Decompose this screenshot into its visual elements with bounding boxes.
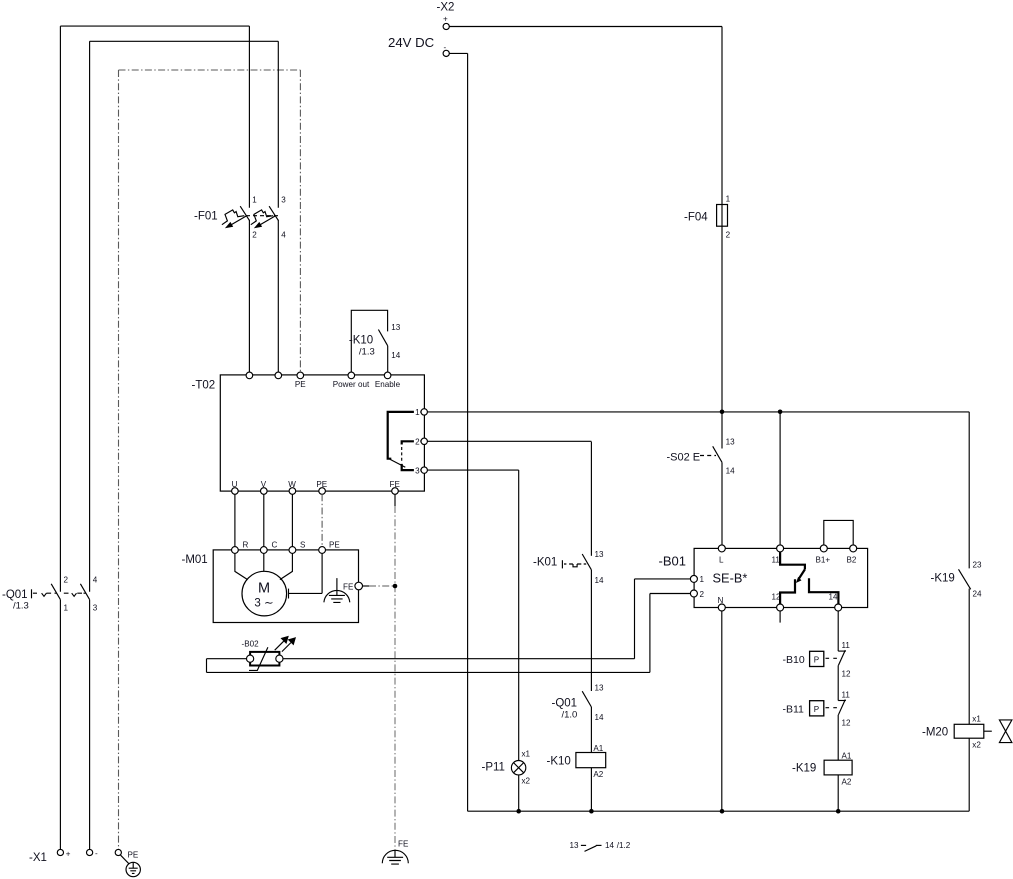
svg-text:-F01: -F01: [194, 211, 218, 223]
svg-text:13: 13: [570, 841, 580, 850]
T02 terminal V: [261, 488, 268, 495]
T02 output labels: [414, 407, 420, 416]
enclosure boundary dash-dot horizontal: [119, 69, 301, 71]
B01 terminal 14: [835, 604, 842, 611]
svg-text:1: 1: [726, 195, 731, 204]
PE inner wire: [289, 553, 323, 593]
terminal X1:-: [87, 849, 93, 855]
svg-text:FE: FE: [398, 840, 409, 849]
contact B10 pressure NC: [838, 650, 846, 652]
M01 box: [213, 550, 358, 623]
FE drop solid: [394, 494, 396, 506]
B02 body: [250, 652, 279, 666]
B01 terminal 12: [777, 604, 784, 611]
svg-text:+: +: [443, 15, 448, 24]
contact Q01 /1.0: [582, 691, 591, 707]
svg-text:B2: B2: [847, 556, 857, 565]
svg-text:x1: x1: [522, 750, 531, 759]
T02 terminal Enable: [384, 372, 391, 379]
svg-text:-B02: -B02: [242, 640, 260, 649]
lamp P11: [511, 761, 525, 775]
svg-text:13: 13: [391, 323, 401, 332]
enclosure boundary dash-dot left vertical: [118, 70, 120, 850]
svg-text:/1.2: /1.2: [617, 841, 631, 850]
fuse F04: [717, 205, 728, 227]
svg-text:x2: x2: [972, 741, 981, 750]
svg-text:x1: x1: [972, 715, 981, 724]
M01 terminal S: [289, 547, 296, 554]
Q01 actuator tick: [31, 589, 33, 598]
coil K19: [824, 760, 852, 775]
svg-text:24V DC: 24V DC: [388, 35, 435, 50]
wire B11 to K19 coil: [837, 715, 839, 760]
B01 terminal B2: [850, 545, 857, 552]
T02 internal dashes: [401, 447, 403, 463]
svg-text:FE: FE: [343, 583, 354, 592]
svg-text:U: U: [232, 480, 238, 489]
B02 bus left connector: [206, 659, 208, 673]
svg-text:N: N: [718, 596, 724, 605]
B02 terminal left: [247, 655, 254, 662]
svg-text:12: 12: [842, 718, 852, 727]
svg-text:14: 14: [595, 576, 605, 585]
B02 terminal right: [276, 655, 283, 662]
T02 terminal Power out: [348, 372, 355, 379]
svg-text:14: 14: [726, 467, 736, 476]
B01 internal changeover bold: [780, 552, 805, 570]
svg-text:-S02 E: -S02 E: [667, 452, 701, 464]
svg-text:2: 2: [726, 230, 731, 239]
svg-text:14: 14: [391, 351, 401, 360]
K10 contact branch above T02: [351, 310, 387, 372]
svg-text:11: 11: [842, 641, 851, 650]
svg-text:-X1: -X1: [29, 852, 47, 864]
contact S02 emergency: [713, 446, 722, 462]
M01 inner leads: [235, 553, 293, 579]
svg-text:14: 14: [595, 713, 605, 722]
wire 24V+ to bus: [449, 26, 722, 28]
Q01 trip notch 2: [72, 593, 77, 596]
svg-text:Power out: Power out: [333, 380, 370, 389]
wire output1 corner down: [968, 412, 970, 569]
B01 terminal N: [718, 604, 725, 611]
wire F04 to junction: [721, 226, 723, 448]
B02 thermistor diagonal: [249, 647, 268, 670]
svg-text:V: V: [261, 480, 267, 489]
0V bus vertical: [467, 53, 469, 811]
wire K19 contact to M20: [968, 589, 970, 725]
svg-text:13: 13: [595, 683, 605, 692]
svg-text:2: 2: [700, 590, 705, 599]
Q01 trip notch 1: [42, 593, 47, 596]
F01 wire pole2 upper: [277, 41, 279, 208]
wire L1 top: [60, 25, 249, 27]
T02 terminal W: [289, 488, 296, 495]
svg-text:-B11: -B11: [783, 703, 805, 715]
T02 internal blade: [390, 459, 405, 467]
terminal X1:PE: [115, 849, 121, 855]
wire 11 branch from output1: [778, 410, 783, 415]
svg-text:FE: FE: [390, 480, 401, 489]
wire from output2 down: [590, 442, 592, 556]
svg-text:-B10: -B10: [783, 654, 805, 666]
svg-text:M: M: [258, 580, 270, 596]
coil K10: [576, 753, 606, 768]
wire L2 top: [90, 40, 279, 42]
svg-text:-M01: -M01: [182, 554, 208, 566]
F01 wire pole1 upper: [248, 26, 250, 208]
svg-text:PE: PE: [128, 851, 139, 860]
valve symbol: [984, 730, 992, 732]
wire 24V+ bus down: [721, 27, 723, 205]
svg-text:P: P: [814, 705, 819, 714]
svg-text:11: 11: [842, 690, 851, 699]
wire K19 coil to rail: [837, 775, 839, 811]
M01 internal earth: [329, 578, 345, 602]
protective earth symbol: [126, 862, 140, 876]
junction FE: [393, 584, 398, 589]
svg-text:2: 2: [252, 231, 257, 240]
svg-text:24: 24: [973, 589, 983, 598]
wire 24V- to bus: [449, 52, 467, 54]
svg-text:4: 4: [93, 576, 98, 585]
svg-text:14: 14: [829, 592, 839, 601]
B02 bus bottom: [207, 594, 691, 673]
svg-text:-F04: -F04: [684, 212, 708, 224]
svg-text:-K19: -K19: [931, 573, 955, 585]
F01 wire pole1 lower: [248, 220, 250, 372]
contact K01: [582, 554, 591, 570]
T02 output terminal 2: [421, 438, 427, 444]
svg-text:-Q01: -Q01: [552, 698, 578, 710]
contact K19 23/24: [959, 569, 971, 589]
svg-text:-K01: -K01: [533, 557, 557, 569]
svg-text:PE: PE: [316, 480, 327, 489]
svg-text:PE: PE: [329, 541, 340, 550]
T02 terminal FE: [392, 488, 399, 495]
B01 terminal 1: [690, 575, 697, 582]
B01 terminal 11: [777, 545, 784, 552]
svg-text:W: W: [288, 480, 296, 489]
FE link wire: [363, 585, 370, 587]
junction output1/S02: [720, 410, 725, 415]
svg-text:-Q01: -Q01: [2, 589, 28, 601]
T02 terminal PE bottom: [319, 488, 326, 495]
svg-text:-: -: [95, 849, 98, 858]
wire lamp to rail: [518, 775, 520, 811]
svg-text:14: 14: [605, 841, 615, 850]
M01 terminal C: [260, 547, 267, 554]
T02 terminal L2: [275, 372, 282, 379]
svg-text:PE: PE: [295, 380, 306, 389]
svg-text:A1: A1: [842, 751, 852, 760]
svg-text:SE-B*: SE-B*: [713, 571, 748, 586]
svg-text:3 ∼: 3 ∼: [254, 598, 273, 610]
motor frame bar: [288, 589, 290, 599]
F01 wire pole2 lower: [277, 220, 279, 372]
svg-text:-K19: -K19: [792, 763, 816, 775]
contact K10 /1.3: [378, 330, 387, 346]
svg-text:2: 2: [415, 438, 420, 447]
wires T02 to M01: [235, 494, 293, 546]
B01 terminal L: [718, 545, 725, 552]
T02 terminal U: [232, 488, 239, 495]
motor circle: [242, 571, 287, 616]
T02 terminal L1: [246, 372, 253, 379]
wire Q01 aux to K10 coil: [590, 707, 592, 753]
svg-text:C: C: [272, 541, 278, 550]
svg-text:3: 3: [93, 604, 98, 613]
svg-text:Enable: Enable: [375, 380, 401, 389]
svg-text:3: 3: [415, 467, 420, 476]
wire L2 vertical upper: [89, 41, 91, 592]
svg-text:-K10: -K10: [547, 756, 571, 768]
svg-text:23: 23: [973, 560, 983, 569]
SECTION: bottom 0V rail: [468, 810, 970, 812]
T02 output terminal 3: [421, 467, 427, 473]
wire output 1: [427, 411, 969, 413]
Q01 mechanical link dashes: [33, 592, 86, 594]
svg-text:x2: x2: [522, 777, 531, 786]
M01 terminal R: [232, 547, 239, 554]
svg-text:+: +: [66, 850, 71, 859]
PE dash-dot wire: [321, 494, 323, 546]
F01 pole2 breaker: [251, 206, 279, 228]
Q01 pole 1-2 contact: [51, 584, 60, 600]
svg-text:A2: A2: [842, 777, 852, 786]
wire L1 vertical upper: [59, 26, 61, 592]
svg-text:B1+: B1+: [816, 556, 831, 565]
svg-text:1: 1: [64, 604, 69, 613]
T02 internal bold 2: [402, 441, 421, 444]
B02 bus top right: [283, 579, 690, 659]
T02 output terminal 1: [421, 409, 427, 415]
svg-text:/1.0: /1.0: [562, 710, 578, 721]
contact B11 pressure NC: [838, 700, 846, 702]
wire S02 to B01 L: [721, 462, 723, 545]
svg-text:A1: A1: [593, 744, 603, 753]
svg-text:-P11: -P11: [482, 762, 505, 774]
F01 mechanical link: [246, 215, 278, 217]
FE bus dash-dot: [394, 506, 396, 850]
T02 internal changeover bold 1: [388, 412, 421, 459]
wire B10 to B11: [837, 665, 839, 700]
terminal X1:+: [57, 849, 63, 855]
svg-text:P: P: [814, 655, 819, 664]
svg-text:2: 2: [64, 576, 69, 585]
wire 14 to B10: [837, 611, 839, 651]
T02 terminal PE top: [297, 372, 304, 379]
wire N to rail: [721, 611, 723, 811]
wire M20 to rail corner: [968, 738, 970, 811]
svg-text:-M20: -M20: [922, 727, 948, 739]
wire output 3: [427, 469, 518, 471]
PE earth lead: [121, 855, 129, 863]
wire output 2: [427, 440, 591, 442]
terminal 12 stub: [779, 611, 781, 623]
solenoid M20: [954, 724, 984, 738]
svg-text:4: 4: [281, 231, 286, 240]
svg-text:13: 13: [726, 438, 736, 447]
Q01 pole 3-4 contact: [80, 584, 89, 600]
B1+/B2 jumper: [824, 520, 853, 545]
svg-text:/1.3: /1.3: [13, 601, 29, 612]
svg-text:1: 1: [415, 408, 420, 417]
B01 terminal 2: [690, 590, 697, 597]
svg-text:-B01: -B01: [659, 554, 686, 569]
wire L1 vertical lower: [59, 600, 61, 850]
T02 internal bold 3: [402, 464, 421, 470]
T02 box: [220, 375, 424, 491]
svg-text:R: R: [243, 541, 249, 550]
svg-text:A2: A2: [593, 770, 603, 779]
svg-text:1: 1: [700, 575, 705, 584]
svg-text:3: 3: [281, 196, 286, 205]
F01 pole1 breaker: [222, 206, 250, 228]
M01 terminal PE: [319, 547, 326, 554]
wire K10 coil to rail: [590, 768, 592, 812]
wire L2 vertical lower: [89, 600, 91, 850]
svg-text:-K10: -K10: [349, 335, 373, 347]
B01 terminal B1+: [820, 545, 827, 552]
svg-text:S: S: [300, 541, 306, 550]
svg-text:-X2: -X2: [437, 2, 455, 14]
svg-text:13: 13: [595, 550, 605, 559]
junction: [589, 809, 594, 814]
svg-text:1: 1: [252, 196, 257, 205]
junction: [516, 809, 521, 814]
B02 influence arrows: [275, 641, 284, 650]
svg-text:-T02: -T02: [192, 380, 216, 392]
enclosure boundary dash-dot right vertical (PE drop to T02): [299, 70, 301, 372]
wire output3 down: [518, 470, 520, 760]
wire K01 to Q01 aux: [590, 570, 592, 691]
B02 bus top left: [207, 658, 247, 660]
svg-text:/1.3: /1.3: [359, 347, 375, 358]
B01 box: [694, 548, 868, 607]
svg-text:12: 12: [842, 670, 852, 679]
svg-text:L: L: [719, 556, 724, 565]
